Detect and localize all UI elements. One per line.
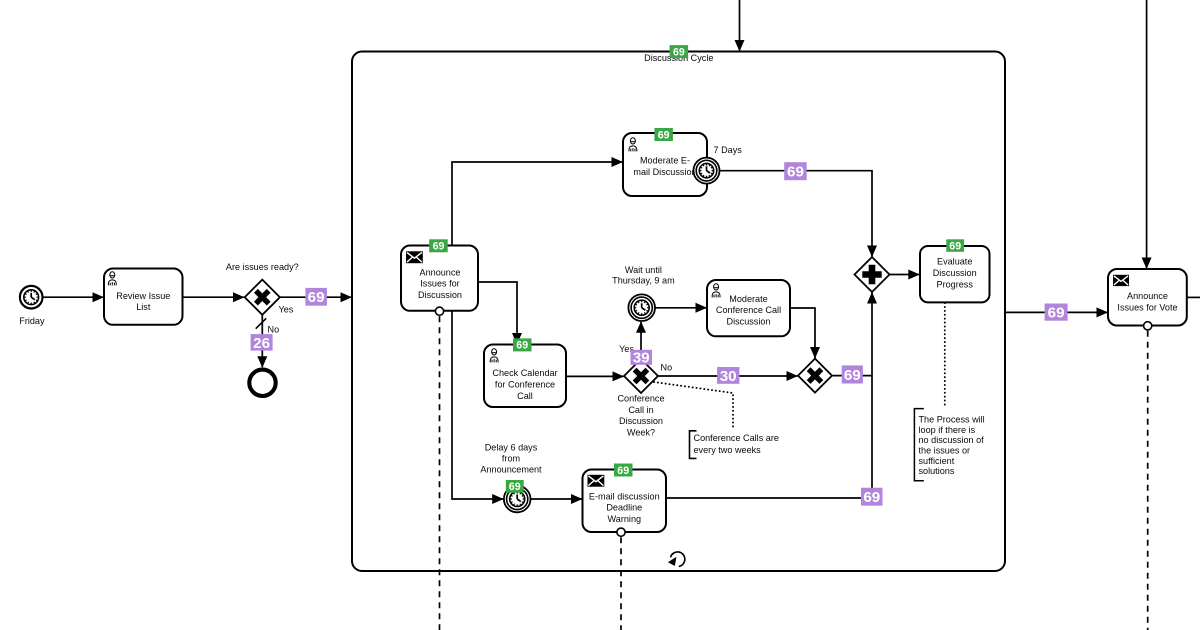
svg-text:Issues for Vote: Issues for Vote [1117,303,1177,313]
message flow dashed from E-mail warning task [620,537,622,630]
message flow circle under Announce Issues for Vote [1144,322,1152,330]
wire: Announce -> Delay 6 days timer [452,311,503,499]
task "Moderate Conference Call Discussion" [707,280,790,336]
wire: Wait timer -> Moderate Conference Call Discussion [655,307,707,309]
svg-text:Wait until: Wait until [625,265,662,275]
badge 69 on Evaluate Discussion Progress [946,239,964,252]
wire: Announce -> Check Calendar [478,282,517,344]
message flow circle under Announce Issues for Discussion [435,307,443,315]
wire: merge gateway -> up (badge 69) [832,365,872,384]
task "Review Issue List" [104,269,183,325]
badge 69 on Moderate E-mail Discussion [654,128,673,141]
svg-text:Discussion: Discussion [619,416,663,426]
svg-text:Review Issue: Review Issue [116,291,170,301]
wire: Announce Issues for Vote -> right edge [1187,296,1200,298]
boundary timer event "7 Days" [694,145,743,183]
svg-text:every two weeks: every two weeks [694,445,762,455]
svg-text:Conference Call: Conference Call [716,305,781,315]
svg-text:69: 69 [516,340,528,352]
svg-text:39: 39 [633,350,650,367]
wire: Moderate Conference Call -> merge gateway [790,308,815,358]
svg-text:Announcement: Announcement [480,465,542,475]
exclusive gateway "Are issues ready?" [226,262,299,315]
svg-text:The Process will: The Process will [919,414,985,424]
svg-text:Conference Calls are: Conference Calls are [694,433,779,443]
wire: Announce -> Moderate E-mail Discussion [452,162,623,246]
svg-text:7 Days: 7 Days [714,145,743,155]
svg-text:69: 69 [1048,305,1065,322]
intermediate timer event "Delay 6 days from Announcement" [480,443,542,513]
svg-text:69: 69 [787,164,804,181]
end event [249,370,275,396]
task "Evaluate Discussion Progress" [920,246,990,302]
svg-text:Week?: Week? [627,427,655,437]
svg-text:Announce: Announce [1127,291,1168,301]
svg-text:69: 69 [617,465,629,477]
svg-text:List: List [136,302,151,312]
badge 69 on E-mail warning task [614,464,633,477]
svg-text:69: 69 [658,129,670,141]
svg-text:30: 30 [720,368,737,385]
wire: 7 Days timer -> parallel gateway (badge 69) [720,162,873,256]
svg-text:Progress: Progress [937,279,974,289]
svg-text:mail Discussion: mail Discussion [633,167,696,177]
wire: incoming flow from top into subprocess [739,0,741,51]
svg-text:69: 69 [844,367,861,384]
svg-text:Are issues ready?: Are issues ready? [226,262,299,272]
svg-text:69: 69 [308,289,325,306]
svg-text:loop if there is: loop if there is [919,425,976,435]
svg-text:sufficient: sufficient [919,456,955,466]
wire: Yes branch to subprocess with badge 69 [279,288,352,315]
task "E-mail discussion Deadline Warning" [583,470,667,533]
task "Check Calendar for Conference Call" [484,345,566,408]
svg-text:Discussion: Discussion [933,268,977,278]
message flow dashed from Announce Issues for Discussion [439,316,441,630]
svg-text:Call in: Call in [628,405,653,415]
badge 69 on Announce Issues for Discussion [429,239,448,252]
merge exclusive gateway [798,359,832,393]
svg-text:69: 69 [673,46,685,58]
wire: Review Issue List -> gateway [183,296,245,298]
wire: incoming flow from top into Announce Issues for Vote [1146,0,1148,269]
svg-text:Thursday, 9 am: Thursday, 9 am [612,275,675,285]
wire: subprocess -> Announce Issues for Vote (badge 69) [1005,304,1108,322]
task "Moderate E-mail Discussion" [623,133,707,196]
svg-text:Issues for: Issues for [420,279,459,289]
annotation "Conference Calls are every two weeks" [690,431,779,459]
svg-text:Discussion: Discussion [418,290,462,300]
wire: Check Calendar -> Conference Call gateway [566,375,624,377]
intermediate timer event "Wait until Thursday, 9 am" [612,265,675,321]
svg-text:Announce: Announce [420,267,461,277]
svg-text:Evaluate: Evaluate [937,257,972,267]
wire: E-mail warning -> up to parallel gateway (badge 69) [666,293,883,507]
svg-text:the issues or: the issues or [919,445,971,455]
svg-text:Moderate E-: Moderate E- [640,156,690,166]
association dotted: gateway -> annotation "Conference Calls..." [654,382,733,429]
svg-text:no discussion of: no discussion of [919,435,985,445]
svg-text:Conference: Conference [617,394,664,404]
wire: parallel gateway -> Evaluate Discussion Progress [890,274,920,276]
wire: No branch to merge gateway with badge 30 [658,363,798,385]
svg-text:Discussion: Discussion [727,316,771,326]
badge 69 on Check Calendar [513,338,532,351]
svg-text:Call: Call [517,391,533,401]
start timer event "Friday" [19,286,45,326]
svg-text:Warning: Warning [608,514,642,524]
subprocess "Discussion Cycle" [352,52,1005,572]
svg-text:69: 69 [509,481,521,493]
svg-text:26: 26 [253,335,270,352]
svg-text:Moderate: Moderate [729,294,767,304]
loop marker of subprocess [668,552,685,566]
svg-text:No: No [661,363,673,373]
message flow dashed from Announce Issues for Vote [1147,331,1149,630]
svg-text:Check Calendar: Check Calendar [492,368,557,378]
association dotted: Evaluate -> annotation [944,303,946,406]
annotation "The Process will loop..." [914,409,984,481]
svg-text:Yes: Yes [279,305,294,315]
badge 69 on subprocess top [670,45,689,58]
svg-text:solutions: solutions [919,466,955,476]
task "Announce Issues for Vote" [1108,269,1187,326]
svg-text:69: 69 [949,240,961,252]
svg-text:69: 69 [433,241,445,253]
svg-text:E-mail discussion: E-mail discussion [589,491,660,501]
wire: No branch down with default slash and badge 26 [251,315,280,367]
wire: Delay timer -> E-mail discussion Deadline Warning [531,498,583,500]
svg-text:Deadline: Deadline [606,503,642,513]
badge 69 on Delay timer [506,480,524,493]
task "Announce Issues for Discussion" [401,246,478,311]
svg-text:No: No [268,325,280,335]
parallel gateway [855,257,890,292]
message flow circle under E-mail warning task [617,528,625,536]
svg-text:from: from [502,454,520,464]
svg-text:for Conference: for Conference [495,380,555,390]
wire: Yes up to Wait timer with badge 39 [619,322,652,367]
svg-text:69: 69 [863,489,880,506]
svg-text:Friday: Friday [19,316,45,326]
svg-text:Delay 6 days: Delay 6 days [485,443,538,453]
exclusive gateway "Conference Call in Discussion Week?" [617,359,664,437]
wire: start -> Review Issue List [43,296,104,298]
